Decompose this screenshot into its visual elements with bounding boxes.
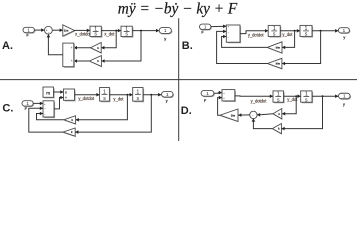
A: wire add block to sum junction bottom [48,35,62,55]
svg-text:1/m: 1/m [64,29,68,33]
svg-text:s: s [103,96,106,102]
D: wire integrator1 to integrator2 with tap node [284,95,301,97]
A: output port y oval [161,31,172,35]
horizontal divider between panels [0,79,357,81]
C: wire integrator1 to integrator2 with tap node [109,94,132,96]
D: wire gain k to sum circle bottom [253,119,272,129]
D: wire F to sum block [214,92,222,95]
svg-text:y: y [343,35,345,39]
C: sum block rectangle [44,102,55,118]
D: wire gain 1/m to sum input 2 [218,98,222,116]
svg-text:1: 1 [166,92,169,97]
svg-text:y_dot: y_dot [282,32,293,37]
B: wire integrator2 to output with tap node [312,30,338,32]
svg-text:s: s [277,97,280,103]
C: wire gain k to sum input 2 [29,108,63,132]
C: gain b triangle (flipped) [64,120,76,124]
B: wire integrator1 to integrator2 with tap node [280,30,300,32]
svg-text:F: F [204,99,207,103]
C: feedback wire y_dot to gain b [76,95,128,120]
D: wire sum to integrator 1, label y_dotdot [235,95,273,97]
svg-text:1/m: 1/m [231,113,236,117]
svg-text:s: s [137,96,140,102]
svg-text:1: 1 [164,28,167,33]
svg-text:m: m [46,90,50,95]
A: gain 1/m triangle [64,31,76,36]
C: constant m block [44,88,54,98]
C: wire gain b to sum input 3 [37,114,64,120]
svg-text:C.: C. [2,103,13,115]
svg-text:÷: ÷ [65,96,67,100]
B: integrator 1/s block 2 [301,27,313,37]
svg-text:x_dot: x_dot [104,32,115,37]
B: gain k/m triangle (flipped) [268,64,282,69]
svg-text:−: − [228,30,230,34]
svg-text:s: s [273,32,276,38]
B: gain b/m triangle (flipped) [268,48,283,54]
svg-text:+: + [228,25,230,29]
svg-text:s: s [125,32,128,38]
svg-text:F: F [26,34,29,38]
svg-text:y_dot: y_dot [113,97,124,102]
svg-text:1: 1 [206,91,209,96]
C: wire divide to integrator 1, label y_dotdot [75,94,100,96]
D: sum circle of feedback terms [250,111,257,118]
B: sum block rectangle [228,26,241,43]
B: wire F to sum block [211,25,226,27]
svg-text:+: + [71,59,73,63]
vertical divider between panels [178,18,180,141]
svg-text:−: − [44,107,46,111]
A: wire F to sum [34,29,44,31]
B: wire gain b/m to sum input 3 [222,37,268,48]
A: gain k triangle (flipped) [90,62,102,67]
svg-text:−: − [44,112,46,116]
C: input port F oval [24,103,34,106]
svg-text:mÿ = −bẏ − ky + F: mÿ = −bẏ − ky + F [118,1,238,18]
B: output port y oval [341,30,351,33]
svg-text:1: 1 [26,101,29,106]
svg-text:x: x [65,91,67,95]
A: feedback wire y to gain k [101,31,141,61]
svg-text:1: 1 [204,25,207,30]
svg-text:k/m: k/m [276,62,280,66]
D: gain k triangle (flipped) [273,129,282,134]
svg-text:1: 1 [343,28,346,33]
D: input port F oval [203,93,214,96]
A: wire gain b to add block [74,47,91,49]
D: integrator 1/s block 1 [274,92,284,103]
C: wire F to sum block [33,102,43,104]
svg-text:+: + [223,96,225,100]
A: add block (flipped sum rectangle) [64,44,75,67]
svg-text:F: F [25,107,28,111]
svg-text:y: y [164,36,166,41]
svg-text:y_dotdot: y_dotdot [248,32,265,37]
A: wire integrator2 to output with junction node [132,30,159,32]
svg-text:−: − [48,31,50,35]
svg-text:+: + [71,46,73,50]
svg-text:b/m: b/m [276,46,280,50]
C: integrator 1/s block 2 [134,89,144,102]
B: wire sum to integrator 1, label y_dotdot [240,31,268,34]
D: output port y oval [341,96,351,99]
svg-text:x_dotdot: x_dotdot [75,32,92,37]
svg-text:y: y [343,103,345,107]
A: wire sum to gain 1/m [52,29,63,31]
A: integrator 1/s block 2 [122,27,133,37]
C: gain k triangle (flipped) [64,133,76,137]
D: wire gain b to sum circle [257,114,273,115]
svg-text:1: 1 [343,94,346,99]
D: gain b triangle (flipped) [274,114,283,119]
D: feedback wire y to gain k [281,96,322,128]
svg-text:D.: D. [181,105,192,117]
D: feedback wire y_dot to gain b [282,96,296,114]
svg-text:+: + [223,91,225,95]
A: input port F oval [25,30,35,33]
svg-text:+: + [44,102,46,106]
D: wire integrator2 to output with tap node [312,95,338,97]
svg-text:−: − [228,35,230,39]
C: wire sum to divide input 2 [54,98,64,109]
svg-text:s: s [94,32,97,38]
svg-text:y_dotdot: y_dotdot [78,96,95,101]
A: wire integrator1 to integrator2 with tap node [101,30,121,32]
A: integrator 1/s block 1 [91,27,102,37]
svg-text:A.: A. [2,40,13,52]
svg-text:s: s [305,32,308,38]
svg-text:s: s [305,97,308,103]
C: integrator 1/s block 1 [101,89,110,102]
svg-text:B.: B. [182,40,193,52]
B: feedback wire y_dot to gain b/m [282,31,295,48]
B: wire gain k/m to sum input 2 [217,31,268,63]
A: wire gain to integrator 1 [75,29,91,31]
C: wire integrator2 to output with tap node [143,94,161,96]
C: output port y oval [164,94,174,97]
svg-text:−: − [252,113,254,117]
B: feedback wire y to gain k/m [282,31,321,64]
D: wire sum circle to gain 1/m [238,114,250,116]
C: divide block [65,90,76,101]
A: feedback wire x_dot to gain b [101,31,116,48]
A: gain b triangle (flipped) [91,48,102,53]
svg-text:F: F [201,31,204,35]
C: wire m to divide block [54,91,64,93]
svg-text:y: y [166,99,168,103]
D: sum block rectangle [223,91,235,102]
B: input port F oval [202,27,212,30]
D: gain 1/m triangle (flipped) [221,116,239,122]
svg-text:1: 1 [27,28,30,33]
A: sum junction circle [45,26,53,34]
A: wire gain k to add block [74,60,90,62]
D: integrator 1/s block 2 [302,92,313,103]
C: feedback wire y to gain k [75,95,151,132]
svg-text:y_dotdot: y_dotdot [251,99,268,104]
B: integrator 1/s block 1 [269,27,281,37]
